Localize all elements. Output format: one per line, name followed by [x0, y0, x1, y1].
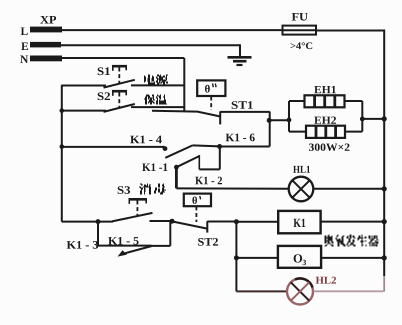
wire K1-1 to K1-2 row	[175, 167, 178, 189]
node K1-bus junction	[382, 219, 387, 224]
node HL1-bus junction	[382, 186, 387, 191]
switch S1 pushbutton actuator	[112, 66, 127, 83]
thermostat sensor box theta2	[184, 194, 211, 207]
left bus of ozone unit	[235, 222, 237, 292]
fuse FU	[282, 13, 317, 35]
thermostat ST1 contact	[152, 111, 270, 125]
switch S2 contact	[62, 104, 184, 112]
lamp HL1	[289, 177, 314, 202]
switch S1 label	[98, 67, 110, 75]
relay contact K1-5 branch	[98, 221, 170, 256]
heater EH1	[289, 95, 362, 107]
relay contact K1-5 label	[108, 237, 138, 245]
relay contact K1-6 label	[226, 134, 255, 142]
heater EH1 label	[314, 86, 336, 93]
wire E line	[61, 44, 240, 57]
wire to lamp HL2	[236, 290, 287, 292]
node O3-bus junction	[382, 255, 387, 260]
wire to heater bracket	[269, 119, 289, 121]
label xiaodu (disinfect)	[139, 184, 166, 195]
switch S1 contact	[62, 80, 184, 88]
node EH-bus junction	[382, 116, 387, 121]
wire bottom row from left bus	[62, 221, 113, 223]
wire K1-2 row to HL1	[176, 187, 288, 189]
thermostat sensor box theta1	[197, 80, 225, 96]
wire N line	[62, 57, 184, 59]
relay contact K1-4 label	[130, 136, 162, 144]
wire row to K1 coil	[236, 221, 278, 223]
node O3 row junction	[234, 255, 239, 260]
relay coil K1 box	[278, 211, 320, 233]
relay contact K1-1	[174, 147, 220, 170]
wire K1 to bus	[321, 221, 384, 223]
relay contact K1-4	[62, 145, 220, 157]
thermostat ST2 contact	[172, 221, 236, 232]
N bus vertical	[183, 58, 185, 111]
right bus vertical	[383, 30, 385, 292]
node K1-4 row junction	[60, 144, 65, 149]
node S2-left junction	[60, 108, 65, 113]
plug pin E	[21, 42, 61, 50]
dashed link theta1 to ST1	[210, 97, 212, 111]
fuse temperature label	[291, 42, 313, 49]
dashed link theta2 to ST2	[195, 206, 197, 222]
plug pin L	[21, 27, 62, 35]
wire K1-6 row	[220, 146, 270, 148]
heater EH2	[289, 126, 362, 138]
wire O3 row left	[236, 257, 278, 259]
switch S3 label	[118, 186, 130, 194]
wire L line to fuse	[62, 29, 282, 31]
node ST2 row junction	[170, 219, 175, 224]
heater right bracket	[360, 101, 384, 132]
node ST1-EH junction	[267, 118, 272, 123]
node S3 row junction	[96, 219, 101, 224]
relay contact K1-2 label	[195, 177, 222, 185]
switch S3 pushbutton actuator	[129, 199, 148, 216]
node bottom-right bus junction	[234, 219, 239, 224]
plug pin N	[20, 56, 62, 64]
heater left bracket	[287, 101, 292, 132]
relay contact K1-1 label	[142, 163, 167, 171]
label dianyuan (power)	[144, 75, 168, 85]
wire HL2 to bus	[314, 290, 384, 292]
wire ST1 node vertical	[269, 112, 271, 147]
heater power label 300Wx2	[309, 144, 350, 152]
left bus vertical	[61, 85, 63, 222]
wire O3 to bus	[321, 257, 384, 259]
switch S3 contact	[112, 213, 172, 222]
switch S2 pushbutton actuator	[112, 91, 127, 107]
node A junction	[217, 144, 222, 149]
wire fuse to right bus corner	[317, 30, 384, 32]
label baowen (keep warm)	[144, 95, 167, 105]
wire HL1 to bus	[313, 188, 384, 190]
ground	[228, 57, 252, 65]
lamp HL2	[287, 278, 313, 304]
lamp HL1 label	[293, 166, 310, 173]
thermostat ST2 label	[198, 238, 218, 246]
ozone cell O3 box	[278, 246, 321, 268]
lamp HL2 label	[316, 277, 336, 284]
plug XP label	[40, 16, 56, 24]
heater EH2 label	[314, 117, 336, 124]
switch S2 label	[98, 92, 110, 100]
label ozone generator	[325, 235, 379, 247]
thermostat ST1 label	[232, 101, 253, 109]
relay contact K1-3 label	[67, 241, 98, 249]
